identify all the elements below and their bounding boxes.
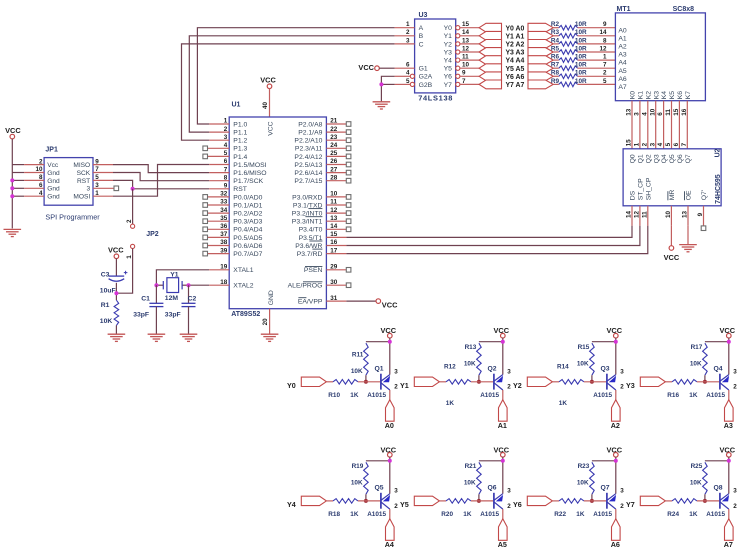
svg-text:Q4: Q4 bbox=[661, 154, 668, 163]
no-connect squares U1 P0.0-P0.7 bbox=[203, 195, 208, 256]
wire VCC to U3 G1 bbox=[379, 67, 395, 69]
wire VCC branch to R13 bbox=[479, 341, 503, 343]
svg-text:Q0: Q0 bbox=[630, 154, 637, 163]
svg-text:2: 2 bbox=[406, 29, 410, 36]
wire VCC branch to R17 bbox=[705, 341, 729, 343]
svg-text:Gnd: Gnd bbox=[47, 194, 60, 201]
svg-text:Y7: Y7 bbox=[626, 500, 635, 509]
svg-text:PSEN: PSEN bbox=[304, 267, 323, 274]
svg-text:P1.0: P1.0 bbox=[233, 121, 247, 128]
no-connect JP1 pin 3 bbox=[114, 186, 119, 191]
svg-text:R13: R13 bbox=[465, 344, 477, 351]
no-connect squares U1 PSEN ALE bbox=[346, 268, 351, 288]
svg-text:Q2: Q2 bbox=[645, 154, 652, 163]
svg-text:7: 7 bbox=[603, 62, 607, 69]
svg-text:3: 3 bbox=[224, 134, 228, 141]
svg-text:JP2: JP2 bbox=[146, 231, 159, 238]
svg-text:P2.6/A14: P2.6/A14 bbox=[294, 170, 322, 177]
wire RST node to JP2 pin 2 bbox=[132, 189, 134, 224]
junction VCC branch bbox=[727, 459, 731, 463]
svg-text:27: 27 bbox=[330, 166, 338, 173]
svg-text:3: 3 bbox=[394, 487, 398, 494]
svg-text:3: 3 bbox=[649, 142, 656, 146]
resistor R22 1K bbox=[552, 499, 606, 518]
no-connect squares U1 P2 pins bbox=[346, 122, 351, 183]
wire MT1 K7 to U2 Q7 bbox=[686, 101, 688, 149]
svg-text:34: 34 bbox=[220, 207, 228, 214]
svg-text:GND: GND bbox=[268, 290, 275, 305]
wire MT1 K3 to U2 Q3 bbox=[655, 101, 657, 149]
svg-text:EA/VPP: EA/VPP bbox=[298, 299, 323, 306]
svg-text:Y0: Y0 bbox=[287, 381, 296, 390]
svg-text:1K: 1K bbox=[463, 511, 472, 518]
power VCC (Q4) bbox=[719, 326, 735, 338]
junction VCC branch bbox=[727, 340, 731, 344]
resistor R14 1K bbox=[552, 364, 606, 407]
port A2 bbox=[611, 400, 620, 430]
resistor R17 10K bbox=[690, 343, 707, 382]
svg-text:1K: 1K bbox=[576, 511, 585, 518]
wire VCC branch to R11 bbox=[366, 341, 390, 343]
junction C3/R1/JP2 bbox=[114, 291, 118, 295]
svg-text:10R: 10R bbox=[575, 62, 587, 69]
svg-text:A1015: A1015 bbox=[706, 392, 725, 399]
svg-text:10K: 10K bbox=[690, 361, 702, 368]
svg-text:R15: R15 bbox=[578, 344, 590, 351]
svg-text:A1015: A1015 bbox=[367, 511, 386, 518]
svg-text:9: 9 bbox=[697, 212, 704, 216]
resistor R8 10R bbox=[551, 70, 587, 79]
wire R6 to MT1 A4 bbox=[578, 59, 616, 61]
svg-text:10K: 10K bbox=[690, 480, 702, 487]
svg-text:6: 6 bbox=[39, 182, 43, 189]
svg-text:2: 2 bbox=[507, 503, 511, 510]
svg-text:JP1: JP1 bbox=[45, 147, 58, 154]
svg-text:24: 24 bbox=[330, 142, 338, 149]
port Y0 (input) bbox=[479, 23, 501, 32]
resistor R19 10K bbox=[351, 462, 368, 501]
wire VCC branch to R19 bbox=[366, 460, 390, 462]
svg-text:Q1: Q1 bbox=[375, 366, 384, 373]
svg-text:G1: G1 bbox=[419, 66, 428, 73]
junction base node bbox=[364, 499, 368, 503]
svg-text:23: 23 bbox=[330, 134, 338, 141]
svg-text:Y3: Y3 bbox=[626, 381, 635, 390]
svg-text:5: 5 bbox=[95, 174, 99, 181]
svg-text:XTAL2: XTAL2 bbox=[233, 283, 253, 290]
junction base node bbox=[703, 499, 707, 503]
port Y0 bbox=[287, 377, 326, 390]
svg-text:VCC: VCC bbox=[358, 63, 374, 72]
port A5 bbox=[498, 519, 507, 549]
svg-text:7: 7 bbox=[95, 166, 99, 173]
svg-text:11: 11 bbox=[462, 54, 469, 61]
ground (U1 GND) bbox=[261, 334, 279, 341]
power VCC (Q2) bbox=[493, 326, 509, 338]
resistor R5 10R bbox=[551, 45, 587, 54]
svg-text:Y2: Y2 bbox=[444, 41, 453, 48]
port A6 (output) bbox=[528, 72, 553, 81]
svg-text:10: 10 bbox=[665, 210, 672, 218]
svg-text:R23: R23 bbox=[578, 463, 590, 470]
transistor Q2 A1015 bbox=[480, 366, 511, 400]
wire MT1 K2 to U2 Q2 bbox=[647, 101, 649, 149]
power VCC (U1 pin 40) bbox=[260, 76, 276, 89]
wire U1 P1.1 to U3 B bbox=[189, 36, 394, 132]
wire VCC branch to R21 bbox=[479, 460, 503, 462]
svg-text:Y2: Y2 bbox=[513, 381, 522, 390]
resistor R23 10K bbox=[577, 462, 594, 501]
svg-text:40: 40 bbox=[262, 101, 269, 109]
svg-text:10uF: 10uF bbox=[100, 287, 116, 294]
svg-text:Y7: Y7 bbox=[444, 82, 453, 89]
svg-text:A2: A2 bbox=[611, 421, 620, 430]
svg-text:A2: A2 bbox=[618, 44, 627, 51]
svg-text:K5: K5 bbox=[669, 91, 676, 100]
junction RST/JP2 bbox=[131, 187, 135, 191]
svg-text:VCC: VCC bbox=[108, 246, 124, 255]
port A0 bbox=[385, 400, 394, 430]
svg-text:P0.4/AD4: P0.4/AD4 bbox=[233, 227, 262, 234]
port A4 (output) bbox=[528, 56, 553, 65]
svg-text:14: 14 bbox=[462, 29, 470, 36]
svg-text:10R: 10R bbox=[575, 29, 587, 36]
svg-text:36: 36 bbox=[220, 223, 228, 230]
svg-text:A1015: A1015 bbox=[706, 511, 725, 518]
svg-text:Q3: Q3 bbox=[653, 154, 660, 163]
svg-text:21: 21 bbox=[330, 118, 338, 125]
svg-text:R21: R21 bbox=[465, 463, 477, 470]
junction base node bbox=[703, 380, 707, 384]
wire U2 SH_CP to U1 P3.7 bbox=[346, 226, 647, 254]
svg-text:9: 9 bbox=[603, 21, 607, 28]
svg-text:P0.7/AD7: P0.7/AD7 bbox=[233, 251, 262, 258]
svg-text:P1.7/SCK: P1.7/SCK bbox=[233, 178, 263, 185]
port Y2 bbox=[513, 377, 552, 390]
resistor R9 10R bbox=[551, 78, 587, 87]
port A4 bbox=[385, 519, 394, 549]
svg-text:3: 3 bbox=[394, 368, 398, 375]
svg-text:Q6: Q6 bbox=[488, 485, 497, 492]
wire Q4 collector to port A3 bbox=[728, 390, 730, 400]
port Y6 bbox=[513, 496, 552, 509]
svg-text:R5: R5 bbox=[551, 45, 560, 52]
transistor Q5 A1015 bbox=[367, 485, 398, 518]
svg-text:2: 2 bbox=[394, 384, 398, 391]
junction VCC branch bbox=[614, 459, 618, 463]
wire VCC branch to R23 bbox=[592, 460, 616, 462]
svg-text:22: 22 bbox=[330, 126, 338, 133]
svg-text:10: 10 bbox=[462, 62, 470, 69]
svg-text:R12: R12 bbox=[444, 364, 456, 371]
svg-text:2: 2 bbox=[733, 503, 737, 510]
svg-text:13: 13 bbox=[330, 215, 338, 222]
svg-text:8: 8 bbox=[224, 174, 228, 181]
resistor R20 1K bbox=[439, 499, 493, 518]
svg-text:74HC595: 74HC595 bbox=[715, 174, 722, 204]
svg-text:30: 30 bbox=[330, 279, 338, 286]
svg-text:9: 9 bbox=[462, 70, 466, 77]
svg-text:Y4 A4: Y4 A4 bbox=[505, 58, 524, 65]
svg-text:VCC: VCC bbox=[664, 253, 680, 262]
svg-text:10R: 10R bbox=[575, 21, 587, 28]
port Y3 (input) bbox=[479, 48, 501, 57]
port A7 bbox=[724, 519, 733, 549]
wire Q2 collector to port A1 bbox=[502, 390, 504, 400]
svg-text:Y6: Y6 bbox=[513, 500, 522, 509]
wire U1 GND pin 20 to ground bbox=[269, 309, 271, 334]
port A5 (output) bbox=[528, 64, 553, 73]
svg-text:A4: A4 bbox=[385, 540, 394, 549]
svg-text:P2.4/A12: P2.4/A12 bbox=[294, 154, 322, 161]
port Y2 (input) bbox=[479, 40, 501, 49]
svg-text:3: 3 bbox=[507, 368, 511, 375]
svg-text:MR: MR bbox=[669, 190, 676, 201]
svg-text:G2B: G2B bbox=[419, 82, 433, 89]
svg-text:SCK: SCK bbox=[77, 170, 91, 177]
svg-text:C1: C1 bbox=[141, 295, 150, 302]
svg-text:Y0 A0: Y0 A0 bbox=[505, 25, 524, 32]
svg-text:33pF: 33pF bbox=[133, 311, 149, 318]
svg-text:19: 19 bbox=[220, 264, 228, 271]
svg-text:1K: 1K bbox=[689, 511, 698, 518]
svg-text:K6: K6 bbox=[677, 91, 684, 100]
svg-text:20: 20 bbox=[262, 318, 269, 326]
wire JP1 MISO to U1 P1.6 bbox=[113, 165, 209, 173]
svg-text:1: 1 bbox=[406, 21, 410, 28]
junction base node bbox=[477, 499, 481, 503]
junction VCC branch bbox=[614, 340, 618, 344]
wire MT1 K6 to U2 Q6 bbox=[678, 101, 680, 149]
svg-text:VCC: VCC bbox=[5, 126, 21, 135]
wire U2 OE to ground bbox=[687, 226, 689, 244]
junction VCC branch bbox=[501, 459, 505, 463]
svg-text:A6: A6 bbox=[611, 540, 620, 549]
svg-text:K1: K1 bbox=[638, 91, 645, 100]
svg-text:Gnd: Gnd bbox=[47, 170, 60, 177]
junction dots on JP1 ground chain bbox=[10, 178, 14, 198]
svg-text:3: 3 bbox=[620, 487, 624, 494]
svg-text:Y2 A2: Y2 A2 bbox=[505, 42, 524, 49]
svg-text:12M: 12M bbox=[165, 295, 179, 302]
wire U2 ST_CP to U1 P3.6 bbox=[346, 226, 640, 246]
svg-text:Y0: Y0 bbox=[444, 25, 453, 32]
wire U1 P1.0 to U3 A bbox=[197, 28, 394, 124]
svg-text:10: 10 bbox=[35, 166, 43, 173]
svg-text:5: 5 bbox=[665, 142, 672, 146]
resistor R10 1K bbox=[326, 380, 380, 400]
wire U3 G2A/G2B to ground bbox=[381, 76, 394, 101]
wire Q7 collector to port A6 bbox=[615, 509, 617, 519]
svg-text:10K: 10K bbox=[464, 361, 476, 368]
svg-text:A3: A3 bbox=[618, 52, 627, 59]
no-connect squares U1 P3.0-P3.4 bbox=[346, 195, 351, 232]
wire R3 to MT1 A1 bbox=[578, 35, 616, 37]
wire R8 to MT1 A6 bbox=[578, 75, 616, 77]
svg-text:P1.1: P1.1 bbox=[233, 130, 247, 137]
svg-text:R6: R6 bbox=[551, 54, 560, 61]
junction VCC branch bbox=[388, 459, 392, 463]
svg-text:RST: RST bbox=[233, 186, 247, 193]
svg-text:Y5 A5: Y5 A5 bbox=[505, 66, 524, 73]
svg-text:10R: 10R bbox=[575, 54, 587, 61]
wire VCC to Q1 emitter bbox=[389, 338, 391, 375]
svg-text:Gnd: Gnd bbox=[47, 186, 60, 193]
crystal Y1 12M bbox=[156, 271, 188, 301]
svg-text:C2: C2 bbox=[188, 295, 197, 302]
junction XTAL1/C1/Y1 bbox=[154, 283, 158, 287]
resistor R13 10K bbox=[464, 343, 481, 382]
svg-text:ALE/PROG: ALE/PROG bbox=[288, 283, 323, 290]
resistor R4 10R bbox=[551, 37, 587, 46]
svg-text:8: 8 bbox=[39, 174, 43, 181]
wire VCC to Q4 emitter bbox=[728, 338, 730, 375]
svg-text:7: 7 bbox=[462, 78, 466, 85]
port Y5 bbox=[400, 496, 439, 509]
svg-text:SPI Programmer: SPI Programmer bbox=[45, 213, 100, 222]
svg-text:P0.1/AD1: P0.1/AD1 bbox=[233, 202, 262, 209]
wire R7 to MT1 A5 bbox=[578, 67, 616, 69]
svg-text:1K: 1K bbox=[350, 511, 359, 518]
svg-text:13: 13 bbox=[682, 210, 689, 218]
svg-text:28: 28 bbox=[330, 174, 338, 181]
svg-text:R16: R16 bbox=[667, 392, 679, 399]
port A0 (output) bbox=[528, 23, 553, 32]
svg-text:C: C bbox=[419, 41, 424, 48]
svg-text:5: 5 bbox=[406, 78, 410, 85]
resistor R21 10K bbox=[464, 462, 481, 501]
svg-text:SH_CP: SH_CP bbox=[645, 177, 652, 200]
port Y5 (input) bbox=[479, 64, 501, 73]
svg-text:1K: 1K bbox=[689, 392, 698, 399]
svg-text:2: 2 bbox=[394, 503, 398, 510]
svg-text:A1015: A1015 bbox=[480, 511, 499, 518]
wire VCC to Q2 emitter bbox=[502, 338, 504, 375]
IC U3 74LS138 bbox=[395, 12, 480, 103]
port A7 (output) bbox=[528, 80, 553, 89]
wire VCC to C3 bbox=[115, 258, 117, 276]
svg-text:R22: R22 bbox=[554, 511, 566, 518]
svg-text:7: 7 bbox=[224, 166, 228, 173]
svg-text:U2: U2 bbox=[715, 148, 722, 157]
wire VCC branch to R15 bbox=[592, 341, 616, 343]
svg-text:P0.0/AD0: P0.0/AD0 bbox=[233, 194, 262, 201]
svg-text:Q5: Q5 bbox=[669, 154, 676, 163]
capacitor C3 10uF bbox=[100, 271, 128, 295]
svg-text:Y6 A6: Y6 A6 bbox=[505, 74, 524, 81]
svg-text:K4: K4 bbox=[661, 91, 668, 100]
svg-text:A1: A1 bbox=[498, 421, 507, 430]
power VCC (EA/VPP) bbox=[376, 299, 398, 309]
svg-text:1: 1 bbox=[634, 142, 641, 146]
svg-text:1K: 1K bbox=[559, 400, 568, 407]
transistor Q6 A1015 bbox=[480, 485, 511, 518]
junction base node bbox=[477, 380, 481, 384]
svg-text:35: 35 bbox=[220, 215, 228, 222]
svg-text:15: 15 bbox=[330, 231, 338, 238]
wire Q3 collector to port A2 bbox=[615, 390, 617, 400]
junction VCC branch bbox=[501, 340, 505, 344]
junction base node bbox=[590, 380, 594, 384]
svg-text:U1: U1 bbox=[232, 102, 241, 109]
wire R5 to MT1 A3 bbox=[578, 51, 616, 53]
wire VCC to Q8 emitter bbox=[728, 457, 730, 494]
svg-text:Q1: Q1 bbox=[638, 154, 645, 163]
svg-text:R24: R24 bbox=[667, 511, 679, 518]
ground (U3 G2) bbox=[373, 102, 391, 109]
svg-text:DS: DS bbox=[630, 190, 637, 200]
svg-text:A3: A3 bbox=[724, 421, 733, 430]
no-connect U2 Q7' bbox=[701, 226, 706, 231]
resistor R12 1K bbox=[439, 364, 493, 407]
resistor R1 10K bbox=[100, 300, 119, 325]
port Y6 (input) bbox=[479, 72, 501, 81]
svg-text:P1.3: P1.3 bbox=[233, 146, 247, 153]
svg-text:2: 2 bbox=[126, 219, 133, 223]
svg-text:11: 11 bbox=[330, 199, 337, 206]
ground (R1) bbox=[108, 334, 126, 341]
svg-text:17: 17 bbox=[330, 247, 338, 254]
svg-text:VCC: VCC bbox=[382, 300, 398, 309]
svg-text:Y5: Y5 bbox=[400, 500, 409, 509]
jumper JP2 bbox=[126, 219, 159, 259]
svg-text:10R: 10R bbox=[575, 45, 587, 52]
svg-text:MT1: MT1 bbox=[617, 6, 631, 13]
svg-text:P3.0/RXD: P3.0/RXD bbox=[292, 194, 322, 201]
svg-text:R9: R9 bbox=[551, 78, 560, 85]
ground (C2) bbox=[180, 334, 198, 341]
wire R9 to MT1 A7 bbox=[578, 83, 616, 85]
port A6 bbox=[611, 519, 620, 549]
svg-text:2: 2 bbox=[507, 384, 511, 391]
wire R1 to ground bbox=[115, 325, 117, 334]
svg-text:SC8x8: SC8x8 bbox=[673, 6, 695, 13]
wire U1 EA/VPP to VCC bbox=[346, 300, 376, 302]
transistor Q4 A1015 bbox=[706, 366, 737, 400]
svg-text:A7: A7 bbox=[618, 84, 627, 91]
svg-text:A1015: A1015 bbox=[593, 392, 612, 399]
svg-text:R1: R1 bbox=[101, 302, 110, 309]
svg-text:Y7 A7: Y7 A7 bbox=[505, 82, 524, 89]
svg-text:10K: 10K bbox=[577, 361, 589, 368]
wire R2 to MT1 A0 bbox=[578, 27, 616, 29]
svg-text:10: 10 bbox=[330, 191, 338, 198]
junction G2A/G2B bbox=[379, 82, 383, 86]
svg-text:14: 14 bbox=[599, 29, 607, 36]
svg-text:5: 5 bbox=[603, 78, 607, 85]
resistor R2 10R bbox=[551, 21, 587, 30]
svg-text:1: 1 bbox=[95, 190, 99, 197]
svg-text:Y1 A1: Y1 A1 bbox=[505, 33, 524, 40]
svg-text:P1.2: P1.2 bbox=[233, 138, 247, 145]
svg-text:1: 1 bbox=[603, 54, 607, 61]
wire VCC to Q6 emitter bbox=[502, 457, 504, 494]
svg-text:33: 33 bbox=[220, 199, 228, 206]
svg-text:1K: 1K bbox=[350, 392, 359, 399]
svg-text:Y4: Y4 bbox=[444, 58, 453, 65]
svg-text:Q5: Q5 bbox=[375, 485, 384, 492]
port Y3 bbox=[626, 377, 665, 390]
port Y1 bbox=[400, 377, 439, 390]
wire U1 P1.2 to U3 C bbox=[182, 44, 395, 140]
svg-text:15: 15 bbox=[626, 139, 633, 147]
svg-text:R17: R17 bbox=[691, 344, 703, 351]
junction base node bbox=[590, 499, 594, 503]
svg-text:R4: R4 bbox=[551, 37, 560, 44]
svg-text:P2.7/A15: P2.7/A15 bbox=[294, 178, 322, 185]
wire JP2 pin 1 to C3/R1 node bbox=[116, 249, 132, 294]
wire Q6 collector to port A5 bbox=[502, 509, 504, 519]
